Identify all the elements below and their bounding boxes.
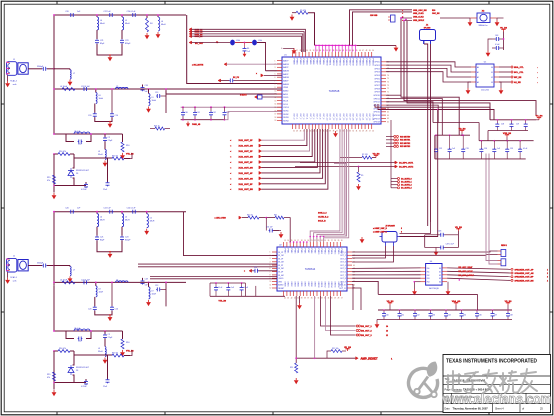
svg-text:SOM_3_3: SOM_3_3 xyxy=(318,213,327,215)
resistor R6v-b 47k xyxy=(47,372,56,381)
svg-text:R19 4k: R19 4k xyxy=(112,156,118,158)
svg-text:68uH: 68uH xyxy=(161,24,166,26)
svg-text:DVDD: DVDD xyxy=(283,97,289,99)
wire row3-b xyxy=(53,282,186,284)
power VC_B6 bank2 xyxy=(536,116,544,120)
svg-text:3: 3 xyxy=(547,277,548,279)
svg-text:10uH: 10uH xyxy=(99,98,104,100)
svg-text:C22 1uF: C22 1uF xyxy=(103,208,111,210)
svg-text:PVD8: PVD8 xyxy=(310,249,312,254)
svg-text:C64: C64 xyxy=(448,315,451,317)
output ports cluster right of U1 xyxy=(386,136,410,149)
watermark logo xyxy=(409,362,438,398)
capacitor group C54-C56 xyxy=(214,283,248,296)
svg-text:OSC_EN: OSC_EN xyxy=(432,13,440,15)
port RX_MUTE xyxy=(192,63,282,67)
svg-text:VC_B6: VC_B6 xyxy=(536,116,544,118)
wires top-right verticals xyxy=(400,17,536,135)
ground row3-b xyxy=(108,314,113,321)
wire AMP_RESET xyxy=(295,357,393,361)
port AIN_CH10 xyxy=(215,215,291,243)
svg-text:OUT_1: OUT_1 xyxy=(296,114,298,120)
svg-text:C61: C61 xyxy=(401,315,404,317)
svg-text:VBG: VBG xyxy=(278,281,282,283)
svg-text:IN_1P: IN_1P xyxy=(278,252,284,254)
U1 right pins xyxy=(373,62,389,124)
capacitor C3-b xyxy=(103,208,113,214)
svg-text:1uF: 1uF xyxy=(497,148,500,150)
resistor R7h-b xyxy=(108,353,131,358)
svg-text:1uF: 1uF xyxy=(247,51,250,53)
wire bottom bank bottom rail xyxy=(378,319,512,321)
svg-text:L7: L7 xyxy=(73,73,75,75)
svg-text:IN2: IN2 xyxy=(427,275,430,277)
svg-text:IN0: IN0 xyxy=(427,268,430,270)
svg-text:PVD16: PVD16 xyxy=(337,249,339,255)
svg-text:PVD9: PVD9 xyxy=(313,249,315,254)
svg-text:68uH: 68uH xyxy=(150,221,155,223)
svg-text:C23: C23 xyxy=(125,237,128,239)
wire osc to U1 xyxy=(266,70,283,72)
svg-text:C21: C21 xyxy=(100,40,103,42)
wire bead to U1 xyxy=(257,43,266,71)
title block frame xyxy=(443,355,551,413)
wire gnd rail row1-b xyxy=(97,240,122,251)
wire cap drop-a xyxy=(111,88,113,113)
wires J4 down xyxy=(424,41,431,227)
svg-text:VD_B3: VD_B3 xyxy=(455,227,463,229)
wire diode net-b xyxy=(54,351,108,390)
wire bottom bank top rail xyxy=(378,309,512,311)
crystal X2 30MHz xyxy=(470,11,497,28)
svg-text:L8 1uH: L8 1uH xyxy=(74,328,81,330)
svg-text:GND15: GND15 xyxy=(334,282,336,288)
port AIN row to U2 left xyxy=(244,267,277,273)
svg-text:R16 47k: R16 47k xyxy=(59,151,66,153)
svg-text:IN3: IN3 xyxy=(427,278,430,280)
ground L10-a xyxy=(103,161,108,167)
svg-text:C2: C2 xyxy=(108,334,110,336)
svg-text:3300pF: 3300pF xyxy=(37,263,44,265)
svg-text:I2S_OUT_1: I2S_OUT_1 xyxy=(361,326,372,328)
svg-text:OUT_13: OUT_13 xyxy=(335,114,337,121)
svg-text:PVD5: PVD5 xyxy=(300,249,302,254)
resistor R7h-a xyxy=(108,156,131,161)
svg-text:68uH: 68uH xyxy=(125,23,130,25)
svg-text:C65: C65 xyxy=(463,315,466,317)
svg-text:C32: C32 xyxy=(439,148,442,150)
svg-text:GPIO10: GPIO10 xyxy=(373,95,380,97)
svg-text:VC_B3: VC_B3 xyxy=(500,27,508,29)
net label VTA-a xyxy=(126,153,134,159)
svg-text:GPIO6: GPIO6 xyxy=(374,82,380,84)
svg-text:XLR_OUT_2N: XLR_OUT_2N xyxy=(239,157,254,159)
wire row3-a xyxy=(53,88,186,90)
capacitor C14-b xyxy=(103,379,110,388)
svg-text:GND8: GND8 xyxy=(310,282,312,287)
wire bank1 bottom rail xyxy=(435,158,526,160)
ground R4v-a xyxy=(120,153,125,159)
svg-text:39uH: 39uH xyxy=(98,154,103,156)
svg-text:7.5pF: 7.5pF xyxy=(108,337,114,339)
svg-text:C21: C21 xyxy=(100,237,103,239)
power VD_B2 bottom xyxy=(387,301,395,310)
svg-text:L9: L9 xyxy=(152,97,154,99)
wire stub right of bundle xyxy=(334,163,346,236)
svg-text:GPIO16: GPIO16 xyxy=(373,115,380,117)
svg-text:C23: C23 xyxy=(125,40,128,42)
svg-text:VD_B3: VD_B3 xyxy=(344,347,352,349)
svg-text:RX2 MUTE2: RX2 MUTE2 xyxy=(400,143,410,145)
svg-text:1: 1 xyxy=(547,269,548,271)
inductor L6-a xyxy=(60,86,75,90)
svg-text:GPIO11: GPIO11 xyxy=(373,98,379,100)
wires mute rows xyxy=(295,161,413,168)
inductor L10-b xyxy=(98,338,106,356)
op-amp U2 TAS5614 body xyxy=(277,245,347,292)
svg-text:D3: D3 xyxy=(439,278,441,280)
svg-text:PVDD11: PVDD11 xyxy=(329,59,331,66)
svg-text:U5: U5 xyxy=(484,62,486,64)
inductor L9-b xyxy=(149,282,157,299)
ports DA_MUTE cluster xyxy=(391,120,412,190)
svg-text:PVDD17: PVDD17 xyxy=(348,59,350,66)
svg-text:PVD3: PVD3 xyxy=(293,249,295,254)
svg-text:OUT_5: OUT_5 xyxy=(340,268,346,270)
svg-text:PVD17: PVD17 xyxy=(340,249,342,255)
svg-text:SCL_CTL: SCL_CTL xyxy=(514,72,524,74)
watermark chinese text xyxy=(447,369,537,393)
ground R4v-b xyxy=(120,350,125,356)
svg-text:GPIO1: GPIO1 xyxy=(374,65,380,67)
ground U6 right xyxy=(446,282,451,296)
svg-text:C52: C52 xyxy=(254,267,257,269)
wire row2b2 to U2 xyxy=(138,266,277,268)
svg-text:OUT_7: OUT_7 xyxy=(340,275,346,277)
wires U2 to U6 xyxy=(352,268,421,310)
svg-text:VD_B2: VD_B2 xyxy=(387,301,395,303)
svg-text:PVD14: PVD14 xyxy=(330,249,332,255)
inductor L7-a xyxy=(95,88,104,103)
svg-text:10uH: 10uH xyxy=(99,291,104,293)
wires XLR staircase to U1 bottom pins xyxy=(262,129,328,189)
svg-text:AMP_RESET: AMP_RESET xyxy=(361,357,378,361)
capacitor C44 C45 pair xyxy=(425,231,459,250)
svg-text:OUT_3: OUT_3 xyxy=(340,262,346,264)
wire cluster box-a xyxy=(66,134,91,142)
ground U5 right xyxy=(499,82,504,94)
svg-text:OUT_24: OUT_24 xyxy=(372,114,374,121)
capacitor C13h-a xyxy=(155,92,166,98)
capacitor bottom bank xyxy=(382,310,513,320)
svg-text:GVDD: GVDD xyxy=(278,278,284,280)
wire cluster right-a xyxy=(90,133,122,135)
resistor R24 mid xyxy=(150,126,170,131)
svg-text:C63: C63 xyxy=(432,315,435,317)
svg-text:Date:: Date: xyxy=(445,408,451,411)
net labels CLK xyxy=(318,213,328,223)
capacitor C13-a xyxy=(81,182,88,191)
svg-text:PVDD14: PVDD14 xyxy=(339,59,341,66)
svg-text:L4: L4 xyxy=(100,20,102,22)
svg-text:RX3 MUTE3: RX3 MUTE3 xyxy=(400,146,410,148)
svg-text:C29: C29 xyxy=(516,124,519,126)
svg-text:L6: L6 xyxy=(161,21,163,23)
ground L4-a xyxy=(156,32,161,38)
svg-text:C13: C13 xyxy=(155,285,158,287)
resistor R5h-a xyxy=(53,151,74,156)
svg-text:GND3: GND3 xyxy=(293,282,295,287)
svg-text:L9: L9 xyxy=(152,290,154,292)
svg-text:GPIO4: GPIO4 xyxy=(374,75,380,77)
svg-text:820pF: 820pF xyxy=(125,43,131,45)
capacitor C9-b xyxy=(110,306,118,311)
svg-text:GPIO8: GPIO8 xyxy=(374,88,380,90)
svg-text:OUT_9: OUT_9 xyxy=(322,114,324,120)
power VC_B3 crystal xyxy=(497,18,508,50)
svg-text:I2S_OUT_2: I2S_OUT_2 xyxy=(361,331,372,333)
svg-text:0.1uF: 0.1uF xyxy=(244,287,248,289)
svg-text:OUT_16: OUT_16 xyxy=(345,114,347,121)
svg-text:IN_2M: IN_2M xyxy=(278,262,284,264)
svg-text:D0: D0 xyxy=(439,268,441,270)
capacitor C7-b xyxy=(81,280,91,285)
inductor L9-a xyxy=(149,89,157,106)
svg-text:C28: C28 xyxy=(501,124,504,126)
svg-text:PVDD22: PVDD22 xyxy=(365,59,367,66)
wire mauve reset xyxy=(314,296,316,358)
svg-text:IRL_OUT: IRL_OUT xyxy=(195,43,204,45)
svg-text:C24 0.1uF: C24 0.1uF xyxy=(81,86,91,88)
svg-text:PVD1: PVD1 xyxy=(287,249,289,254)
svg-text:C13: C13 xyxy=(155,92,158,94)
svg-text:PVDD8: PVDD8 xyxy=(319,59,321,65)
svg-text:GND0: GND0 xyxy=(283,282,285,287)
ground R11 xyxy=(294,378,299,384)
svg-text:D2: D2 xyxy=(439,275,441,277)
svg-text:IN_3M: IN_3M xyxy=(278,268,284,270)
svg-text:x MUTE: x MUTE xyxy=(240,94,247,96)
connector J5 xyxy=(380,225,400,246)
op-amp U5 body xyxy=(471,62,499,92)
capacitor C51 xyxy=(492,44,504,50)
inductor L4-a xyxy=(157,14,166,31)
svg-text:PVDD19: PVDD19 xyxy=(355,59,357,66)
ground row3-a xyxy=(108,121,113,128)
title block header text xyxy=(446,359,537,365)
capacitor C12-a xyxy=(103,134,113,142)
inductor L9-b xyxy=(74,328,90,331)
svg-text:C14: C14 xyxy=(115,308,118,310)
svg-text:C48: C48 xyxy=(495,35,498,37)
resistor R10k xyxy=(327,347,352,358)
svg-text:USB_OSC_EN: USB_OSC_EN xyxy=(413,10,427,12)
svg-text:PVD4: PVD4 xyxy=(297,249,299,254)
svg-text:1uF: 1uF xyxy=(452,148,455,150)
wire cluster box-b xyxy=(66,331,91,339)
wire top bus right xyxy=(357,44,396,46)
svg-text:OUT_11: OUT_11 xyxy=(339,288,346,290)
svg-text:PVDD18: PVDD18 xyxy=(352,59,354,66)
svg-text:OUT_19: OUT_19 xyxy=(355,114,357,121)
wires to headers xyxy=(352,154,498,265)
capacitor C13h-b xyxy=(155,285,166,291)
svg-text:GND11: GND11 xyxy=(320,282,322,288)
svg-text:OUT_12: OUT_12 xyxy=(332,114,334,121)
svg-text:OUT_8: OUT_8 xyxy=(319,114,321,120)
watermark url text xyxy=(442,392,552,407)
svg-text:PVDD0: PVDD0 xyxy=(292,59,294,65)
svg-text:L10k: L10k xyxy=(258,40,262,42)
svg-text:PVDD9: PVDD9 xyxy=(322,59,324,65)
svg-text:www.elecfans.com: www.elecfans.com xyxy=(442,392,552,407)
svg-text:GND2: GND2 xyxy=(290,282,292,287)
svg-text:OUT_15: OUT_15 xyxy=(342,114,344,121)
svg-text:C22 1uF: C22 1uF xyxy=(103,11,111,13)
svg-text:C20: C20 xyxy=(65,208,68,210)
svg-text:GND4: GND4 xyxy=(297,282,299,287)
svg-text:820pF: 820pF xyxy=(125,240,131,242)
svg-text:IN1: IN1 xyxy=(427,271,430,273)
svg-text:IN_2P: IN_2P xyxy=(278,258,284,260)
capacitor C2-b xyxy=(65,208,81,214)
ground U2 bottom xyxy=(297,303,302,309)
wire U2 cap group rail xyxy=(210,282,245,296)
net labels ASP xyxy=(373,227,402,234)
svg-text:OUT_3: OUT_3 xyxy=(302,114,304,120)
svg-text:C24 0.1uF: C24 0.1uF xyxy=(127,11,137,13)
svg-text:SDIN4: SDIN4 xyxy=(283,120,288,122)
svg-text:SDIN3: SDIN3 xyxy=(283,117,288,119)
svg-text:REV-1: REV-1 xyxy=(501,245,508,247)
capacitor C18-a xyxy=(141,85,150,94)
svg-text:R7 470: R7 470 xyxy=(362,154,368,156)
svg-text:30MHzOsc: 30MHzOsc xyxy=(478,25,487,27)
ground at J1-b xyxy=(5,272,10,284)
svg-text:L4 10uH: L4 10uH xyxy=(60,280,68,282)
svg-text:x RX_MUTE: x RX_MUTE xyxy=(192,65,204,67)
svg-text:OUT_7: OUT_7 xyxy=(315,114,317,120)
U2 top dots xyxy=(289,241,307,243)
wire long vertical to J5 xyxy=(400,109,439,237)
wires U1 to U5 xyxy=(386,62,471,82)
svg-text:R12 10k: R12 10k xyxy=(332,348,339,350)
power VDA_AD bottom xyxy=(452,300,461,310)
svg-text:L5: L5 xyxy=(125,20,127,22)
svg-text:47k: 47k xyxy=(47,180,50,182)
svg-text:L9: L9 xyxy=(98,348,100,350)
wire J1 to C1-a xyxy=(28,68,55,70)
ground U1 bottom pin xyxy=(333,131,338,137)
wire cluster right-b xyxy=(90,330,122,332)
svg-text:OUT_0: OUT_0 xyxy=(292,114,294,120)
svg-text:L4: L4 xyxy=(100,217,102,219)
svg-text:L6: L6 xyxy=(150,218,152,220)
svg-text:U6: U6 xyxy=(430,261,432,263)
svg-text:C1: C1 xyxy=(116,86,118,88)
net labels ADC xyxy=(458,266,474,277)
svg-text:x: x xyxy=(244,271,245,273)
capacitor C50 xyxy=(492,35,504,41)
svg-text:GND13: GND13 xyxy=(327,282,329,288)
wire diode net-a xyxy=(54,154,108,193)
svg-text:13: 13 xyxy=(386,331,388,333)
ground C44 xyxy=(434,248,439,256)
inductor L6b-a xyxy=(116,86,129,89)
svg-text:R10: R10 xyxy=(126,145,129,147)
inductor L2-a xyxy=(96,14,105,30)
U2 right pins xyxy=(339,252,355,290)
svg-text:PVD13: PVD13 xyxy=(327,249,329,255)
svg-text:IN_3P: IN_3P xyxy=(278,265,284,267)
capacitor C8-b xyxy=(88,297,97,311)
capacitor bank1 right rail xyxy=(479,140,533,159)
svg-text:C34: C34 xyxy=(484,148,487,150)
svg-text:OUT_20: OUT_20 xyxy=(358,114,360,121)
capacitor C9-a xyxy=(110,113,118,118)
wires J4 to J5 xyxy=(400,222,431,234)
capacitor C13-b xyxy=(81,379,88,388)
svg-text:PVDD24: PVDD24 xyxy=(372,59,374,66)
wire bank lower to U1 xyxy=(225,112,283,120)
ground L4-b xyxy=(144,229,149,235)
wire right drop-b xyxy=(165,282,167,307)
capacitor bank2 xyxy=(488,119,536,141)
wires U2 bottom verticals xyxy=(296,296,299,363)
svg-text:PVD2: PVD2 xyxy=(290,249,292,254)
svg-text:R24 1k: R24 1k xyxy=(154,126,160,128)
wire bank to U6 xyxy=(378,279,477,310)
svg-text:RC_PU: RC_PU xyxy=(233,77,240,79)
svg-text:OUT_10: OUT_10 xyxy=(325,114,327,121)
ground cluster-a xyxy=(52,185,57,200)
svg-text:LRCLK: LRCLK xyxy=(283,107,290,109)
svg-text:SP-1609: SP-1609 xyxy=(424,28,431,30)
XLR output ports xyxy=(230,139,262,192)
svg-text:C33: C33 xyxy=(466,148,469,150)
svg-text:GND16: GND16 xyxy=(337,282,339,288)
svg-text:x: x xyxy=(256,73,257,75)
wire U2 cap group bottom xyxy=(210,286,285,303)
svg-text:68uH: 68uH xyxy=(125,220,130,222)
svg-text:VD_B3: VD_B3 xyxy=(459,128,467,130)
svg-text:GND10: GND10 xyxy=(317,282,319,288)
svg-text:RX1 MUTE1: RX1 MUTE1 xyxy=(400,140,410,142)
svg-text:68uH: 68uH xyxy=(100,220,105,222)
wire row2-a xyxy=(54,69,70,70)
wire U1 right rows xyxy=(386,95,479,141)
wires J5 down xyxy=(352,246,394,262)
wire cap drop-b xyxy=(111,282,113,307)
U2 bottom pins xyxy=(283,282,342,300)
svg-text:XLR_OUT_2P: XLR_OUT_2P xyxy=(239,151,254,153)
svg-text:RX0 MUTE0: RX0 MUTE0 xyxy=(400,136,410,138)
resistor R1-a xyxy=(146,14,153,32)
wire right drop-a xyxy=(165,88,167,113)
inductor L5-a xyxy=(70,70,75,79)
svg-text:PVD7: PVD7 xyxy=(307,249,309,254)
ground cluster-b xyxy=(52,382,57,397)
svg-text:OUT_4: OUT_4 xyxy=(340,265,346,267)
power VD_B3 bottom xyxy=(505,301,513,310)
svg-text:C24 0.1uF: C24 0.1uF xyxy=(81,280,91,282)
svg-text:PVD12: PVD12 xyxy=(324,249,326,255)
svg-text:PVDD12: PVDD12 xyxy=(332,59,334,66)
svg-text:OUT_2: OUT_2 xyxy=(299,114,301,120)
wire trunk-a xyxy=(53,15,55,90)
svg-text:OUT_6: OUT_6 xyxy=(340,272,346,274)
svg-text:GND1: GND1 xyxy=(287,282,289,287)
